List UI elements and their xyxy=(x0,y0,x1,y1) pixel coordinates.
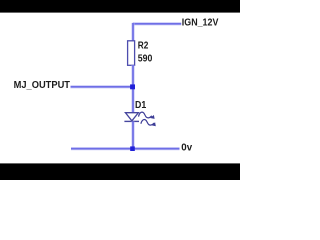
wire: IGN_12V rail xyxy=(133,22,181,25)
resistor R2 xyxy=(128,41,135,66)
diode D1 (LED) xyxy=(124,112,155,126)
wire: 0v rail xyxy=(71,147,180,150)
junction at MJ_OUTPUT node xyxy=(130,84,135,89)
svg-text:D1: D1 xyxy=(135,100,147,111)
wire: D1 cathode to 0v rail xyxy=(131,121,134,148)
svg-text:IGN_12V: IGN_12V xyxy=(182,16,219,28)
svg-text:R2: R2 xyxy=(138,41,149,52)
wire: vertical from IGN_12V rail to R2 xyxy=(131,23,134,42)
wire: R2 bottom to D1 anode xyxy=(131,65,134,113)
wire: MJ_OUTPUT to junction xyxy=(71,85,134,88)
svg-text:590: 590 xyxy=(138,54,153,65)
svg-text:MJ_OUTPUT: MJ_OUTPUT xyxy=(14,80,70,91)
junction on 0v rail xyxy=(130,146,135,151)
svg-text:0v: 0v xyxy=(181,143,192,154)
